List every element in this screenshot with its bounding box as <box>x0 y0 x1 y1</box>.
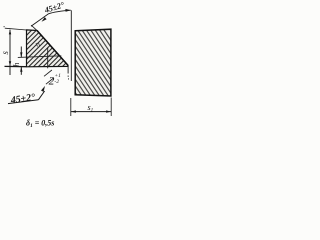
interior speckles <box>36 43 38 47</box>
right plate underlay <box>75 29 111 96</box>
thin continuation 1 <box>46 78 54 84</box>
root face extension line <box>67 66 69 74</box>
s1 right extension <box>110 98 112 117</box>
svg-text:s: s <box>0 51 10 55</box>
stray dot <box>4 26 5 27</box>
angle dimension arc <box>31 10 71 26</box>
arc arrow right (pointing right) <box>65 9 71 12</box>
svg-text:+1: +1 <box>54 73 61 79</box>
s1 dimension line <box>71 111 111 113</box>
interior vertical thin line <box>47 48 49 69</box>
s bottom extension line (plate bottom continued) <box>5 65 27 67</box>
svg-text:h: h <box>12 63 21 67</box>
leader <box>38 91 44 100</box>
right plate outline <box>75 29 111 96</box>
s1 arrow left <box>71 110 76 112</box>
bevel face extension above corner <box>31 25 37 31</box>
left plate outline with bevel <box>27 30 69 67</box>
leader arrowhead pointing up-right <box>41 86 45 92</box>
s top extension line <box>5 28 27 30</box>
left plate hatching <box>0 28 106 69</box>
s arrow bottom <box>9 61 11 66</box>
right plate hatching <box>0 27 149 98</box>
arc arrow left (down-left) <box>42 17 47 22</box>
h dimension upper part, outside arrow pointing down <box>20 47 22 58</box>
h dimension lower part, outside arrow pointing up <box>20 67 22 75</box>
s1 arrow right <box>106 110 111 112</box>
bevel edge emphasized <box>37 31 68 66</box>
svg-text:-2: -2 <box>54 79 59 85</box>
left plate underlay <box>27 30 69 67</box>
h extension line crossing plate <box>18 56 62 58</box>
joint reference line <box>70 10 72 81</box>
underline <box>8 100 38 104</box>
s dimension line <box>9 30 11 75</box>
root line dots <box>67 76 70 77</box>
s arrow top <box>9 29 11 34</box>
s1 left extension <box>70 98 72 116</box>
thin continuation 2 <box>44 70 52 76</box>
